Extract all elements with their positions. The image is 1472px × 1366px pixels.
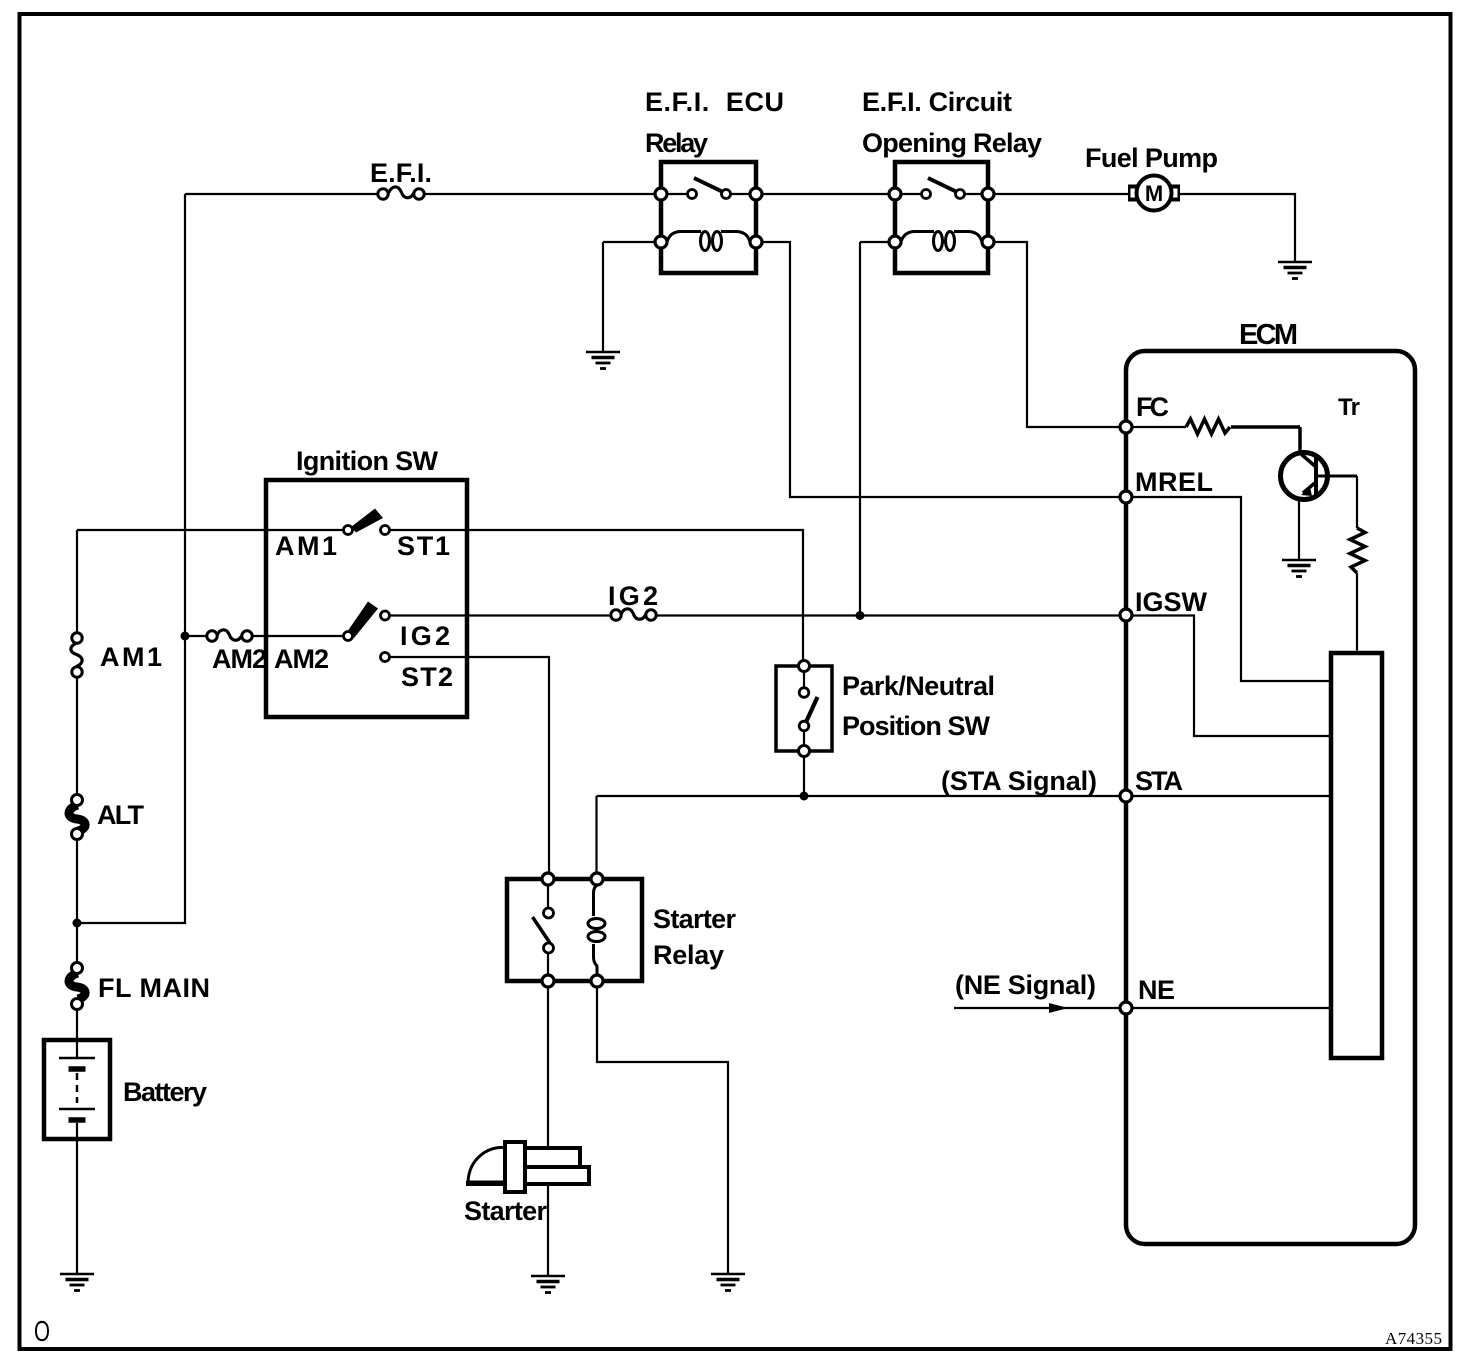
- svg-text:IG2: IG2: [608, 581, 658, 611]
- svg-text:Park/Neutral: Park/Neutral: [842, 671, 995, 701]
- svg-text:STA: STA: [1135, 766, 1183, 796]
- svg-text:AM1: AM1: [275, 531, 337, 561]
- svg-text:E.F.I. Circuit: E.F.I. Circuit: [862, 87, 1012, 117]
- svg-text:O: O: [34, 1316, 50, 1348]
- svg-text:ECM: ECM: [1239, 319, 1298, 351]
- svg-text:Relay: Relay: [645, 128, 708, 158]
- svg-text:NE: NE: [1138, 975, 1175, 1005]
- svg-text:ST2: ST2: [401, 662, 453, 692]
- svg-text:M: M: [1145, 181, 1163, 206]
- svg-text:AM2: AM2: [274, 644, 329, 674]
- svg-text:IGSW: IGSW: [1135, 587, 1208, 617]
- svg-text:AM1: AM1: [100, 642, 162, 672]
- svg-text:ST1: ST1: [397, 531, 450, 561]
- svg-text:E.F.I.: E.F.I.: [370, 158, 432, 188]
- svg-text:Position SW: Position SW: [842, 711, 991, 741]
- svg-text:FC: FC: [1136, 392, 1169, 422]
- svg-text:FL MAIN: FL MAIN: [98, 973, 210, 1003]
- svg-text:Fuel Pump: Fuel Pump: [1085, 143, 1218, 173]
- svg-text:Relay: Relay: [653, 940, 724, 970]
- svg-text:Tr: Tr: [1338, 394, 1360, 421]
- svg-text:(STA Signal): (STA Signal): [941, 766, 1097, 796]
- svg-text:IG2: IG2: [400, 621, 450, 651]
- svg-text:Starter: Starter: [464, 1196, 547, 1226]
- svg-text:AM2: AM2: [212, 644, 267, 674]
- svg-text:ALT: ALT: [97, 800, 145, 830]
- svg-text:(NE Signal): (NE Signal): [955, 970, 1096, 1000]
- svg-text:Opening Relay: Opening Relay: [862, 128, 1042, 158]
- svg-text:Ignition SW: Ignition SW: [296, 446, 439, 476]
- svg-text:E.F.I. ECU: E.F.I. ECU: [645, 87, 784, 117]
- svg-text:Battery: Battery: [123, 1077, 207, 1107]
- svg-text:Starter: Starter: [653, 904, 736, 934]
- svg-text:MREL: MREL: [1135, 467, 1213, 497]
- svg-text:A74355: A74355: [1385, 1329, 1442, 1348]
